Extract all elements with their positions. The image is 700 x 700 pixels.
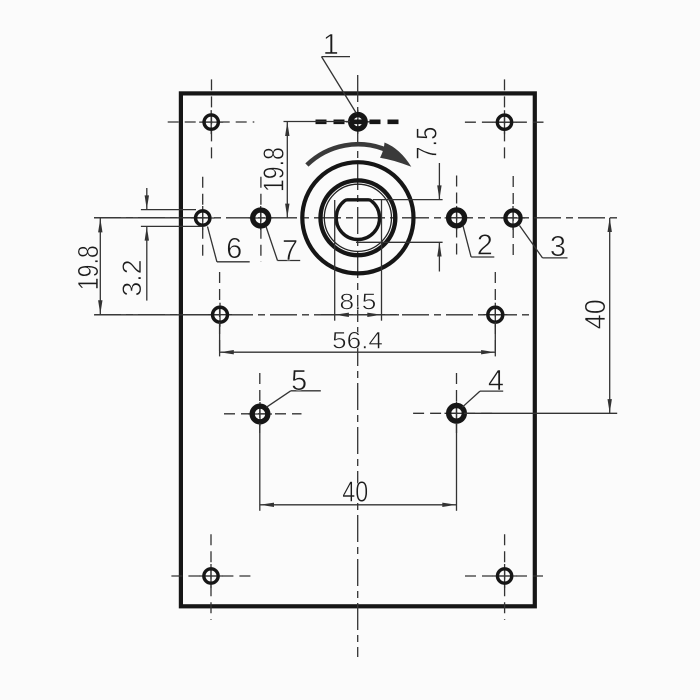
hole 5 (252, 406, 268, 422)
hole bottom-left corner (204, 569, 218, 583)
dimension 40 bottom: arrow left (260, 503, 274, 507)
hole 4 (449, 405, 465, 421)
thick dashed line through hole 1 (316, 120, 401, 125)
crosshair hole top-left (168, 79, 255, 163)
leader 5 (266, 391, 321, 408)
hole 7 (253, 210, 269, 226)
rotation arrowhead (380, 143, 411, 167)
dimension 19.8 left: arrow up (98, 218, 102, 232)
dimension 56.4: arrow right (481, 350, 495, 354)
dimension 40 bottom: dim line (260, 504, 457, 506)
dimension 3.2: arrow up to lower ext (145, 226, 149, 240)
crosshair hole 3 vertical (512, 176, 514, 258)
plate outline rectangle (181, 93, 535, 606)
crosshair row3 left hole vertical (219, 272, 221, 357)
rotation arc (307, 144, 387, 165)
crosshair hole 4 (413, 373, 495, 433)
svg-text:1: 1 (323, 29, 339, 61)
dimension 40 bottom: extension lines (259, 423, 261, 511)
dimension 40 right: dim line (609, 218, 611, 413)
hole 3 (505, 210, 520, 225)
svg-text:56.4: 56.4 (332, 328, 383, 355)
dimension 19.8 left: dim line (99, 218, 101, 314)
svg-text:7.5: 7.5 (412, 127, 444, 160)
shaft ring thin (324, 184, 391, 251)
horizontal centerline row3 (94, 314, 531, 316)
svg-text:7: 7 (282, 235, 298, 267)
leader 7 (266, 227, 300, 261)
dimension 56.4: extension lines (219, 322, 221, 356)
row3 centerline solid segment middle (8.5 dim line) (321, 314, 399, 316)
crosshair hole 7 vertical (260, 177, 262, 262)
leader 2 (463, 226, 494, 257)
dimension 40 right: arrow up (608, 218, 612, 232)
row3 centerline solid segment left (95, 314, 215, 316)
crosshair hole bottom-right (465, 534, 543, 620)
dimension 40 right: extension line bottom (464, 412, 617, 414)
svg-text:8.5: 8.5 (339, 289, 376, 315)
shaft bore D-shape (336, 200, 379, 240)
leader 3 (520, 226, 568, 258)
horizontal centerline solid segment left (94, 217, 205, 219)
leader 6 (208, 227, 250, 262)
svg-text:4: 4 (488, 365, 504, 397)
dimension 56.4: arrow left (220, 350, 234, 354)
crosshair hole bottom-left (171, 534, 251, 620)
hole row3 right (488, 307, 503, 322)
hole bottom-right corner (497, 569, 511, 583)
dimension 7.5: extension lines (373, 199, 443, 201)
shaft ring thick (321, 180, 396, 255)
hole 2 (449, 210, 465, 226)
dimension 3.2: dim line lower (146, 226, 148, 300)
horizontal centerline through shaft row (94, 217, 618, 219)
svg-text:6: 6 (226, 233, 242, 265)
dimension 7.5: arrow up (437, 242, 441, 256)
dimension 3.2: arrow down to upper ext (145, 195, 149, 209)
svg-text:19.8: 19.8 (73, 245, 105, 290)
svg-text:3.2: 3.2 (117, 260, 147, 297)
hole 1 (351, 115, 365, 129)
shaft outer circle (302, 162, 413, 273)
svg-text:40: 40 (580, 299, 612, 329)
svg-text:3: 3 (550, 231, 566, 263)
dimension 8.5: arrow left (335, 313, 349, 317)
svg-text:19.8: 19.8 (259, 147, 291, 192)
dimension 19.8 top: arrow up (285, 122, 289, 136)
crosshair row3 right hole vertical (494, 272, 496, 356)
solid crosshair segments through hole interiors (191, 110, 525, 588)
leader 1 (322, 57, 357, 114)
dimension 19.8 top: extension line (284, 121, 351, 123)
dimension 19.8 top: arrow down (285, 204, 289, 218)
crosshair hole 6 vertical (202, 177, 204, 260)
crosshair hole 5 (224, 373, 302, 433)
dimension 7.5: arrow down (437, 185, 441, 199)
vertical main centerline (357, 75, 359, 657)
dimension 8.5: extension lines (334, 200, 336, 321)
hole row3 left (213, 307, 228, 322)
hole top-left corner (204, 115, 218, 129)
svg-text:2: 2 (477, 229, 493, 261)
dimension 40 bottom: arrow right (442, 503, 456, 507)
dimension 19.8 left: arrow down (98, 300, 102, 314)
dimension 40 right: arrow down (608, 399, 612, 413)
dimension 7.5: dim line upper (438, 163, 440, 200)
dimension 19.8 top: dim line (286, 122, 288, 218)
dimension 7.5: dim line lower (438, 242, 440, 271)
crosshair hole 2 vertical (456, 176, 458, 261)
hole 6 (196, 211, 210, 225)
svg-text:40: 40 (342, 477, 368, 509)
dimension 3.2: extension lines (141, 209, 196, 211)
dimension 8.5: arrow right (367, 313, 381, 317)
crosshair hole top-right (465, 79, 544, 161)
dimension 3.2: dim line upper (146, 188, 148, 210)
leader 4 (462, 391, 503, 407)
hole top-right corner (497, 115, 511, 129)
dimension 56.4: dim line (220, 351, 496, 353)
svg-text:5: 5 (291, 365, 307, 397)
